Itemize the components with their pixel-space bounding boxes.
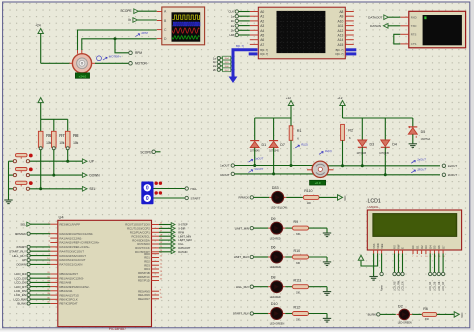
svg-text:+24: +24: [35, 23, 41, 27]
svg-text:A9: A9: [339, 15, 343, 19]
svg-text:LED-RED: LED-RED: [270, 237, 281, 240]
svg-text:+12: +12: [286, 96, 291, 100]
svg-text:+12: +12: [337, 96, 342, 100]
svg-text:RA4/T0CKI/C1OUT: RA4/T0CKI/C1OUT: [60, 249, 85, 253]
svg-text:+0.0: +0.0: [315, 181, 321, 185]
svg-text:2b: 2b: [231, 29, 235, 33]
svg-text:D[0..7]: D[0..7]: [335, 52, 343, 56]
svg-text:RE2/AN7: RE2/AN7: [138, 297, 150, 301]
svg-text:SEL: SEL: [90, 187, 96, 191]
svg-text:DOWN: DOWN: [90, 173, 101, 177]
svg-text:330: 330: [296, 292, 301, 295]
svg-text:2aOUT: 2aOUT: [448, 164, 458, 168]
svg-text:A0: A0: [260, 10, 264, 14]
svg-text:D3: D3: [424, 245, 428, 249]
svg-text:VSS: VSS: [372, 243, 376, 248]
svg-text:D6: D6: [271, 246, 276, 250]
svg-text:SCOPE: SCOPE: [120, 9, 131, 13]
svg-text:LED-GREEN: LED-GREEN: [270, 323, 285, 326]
svg-text:RTS: RTS: [411, 33, 417, 37]
svg-text:1aOUT: 1aOUT: [220, 164, 230, 168]
svg-text:MOTOR-: MOTOR-: [135, 62, 148, 66]
svg-text:RPMCK: RPMCK: [239, 196, 250, 200]
svg-text:D33: D33: [272, 186, 279, 190]
svg-text:R1(2): R1(2): [301, 142, 308, 146]
svg-text:B[0..7]: B[0..7]: [236, 44, 244, 48]
svg-text:VCC: VCC: [344, 195, 347, 200]
svg-text:RA2/AN2/VREF-/CVREF/C2IN+: RA2/AN2/VREF-/CVREF/C2IN+: [60, 241, 100, 245]
svg-text:D3: D3: [370, 142, 375, 146]
svg-text:R2: R2: [348, 129, 353, 133]
svg-text:100: 100: [307, 202, 312, 205]
svg-text:D0: D0: [411, 245, 415, 249]
svg-text:LCD_D5: LCD_D5: [434, 281, 437, 291]
svg-text:A7: A7: [260, 43, 264, 47]
svg-text:VCC: VCC: [461, 312, 464, 317]
svg-text:D7: D7: [280, 143, 285, 147]
svg-text:START_RLY: START_RLY: [233, 312, 249, 316]
svg-text:330: 330: [296, 318, 301, 321]
svg-text:RPM: RPM: [135, 51, 142, 55]
svg-text:RA7/OSC1/CLKIN: RA7/OSC1/CLKIN: [60, 263, 83, 267]
svg-text:D[0..7]: D[0..7]: [260, 52, 268, 56]
svg-text:D7: D7: [441, 245, 445, 249]
svg-text:RE3/MCLR/VPP: RE3/MCLR/VPP: [60, 222, 81, 226]
svg-text:R1: R1: [297, 129, 302, 133]
svg-text:A10: A10: [338, 19, 344, 23]
svg-text:A12: A12: [338, 29, 344, 33]
svg-text:2aOUT: 2aOUT: [416, 158, 426, 162]
svg-text:R8: R8: [73, 133, 79, 138]
svg-text:10TQ045: 10TQ045: [269, 151, 279, 153]
svg-text:LED-GREEN: LED-GREEN: [398, 322, 412, 325]
svg-text:None: None: [381, 285, 384, 291]
svg-text:HILL: HILL: [191, 187, 198, 191]
svg-text:A1: A1: [260, 15, 264, 19]
svg-text:UP: UP: [22, 258, 26, 262]
svg-text:START: START: [191, 196, 201, 200]
svg-text:1bOUT: 1bOUT: [255, 167, 264, 171]
svg-text:DATAOUT: DATAOUT: [178, 246, 190, 250]
svg-text:BLINK: BLINK: [17, 302, 26, 306]
svg-text:A5: A5: [260, 34, 264, 38]
svg-text:R12: R12: [294, 305, 301, 309]
svg-text:LED-RED: LED-RED: [270, 266, 281, 269]
svg-text:DATAIN: DATAIN: [370, 24, 381, 28]
svg-text:D1: D1: [416, 245, 420, 249]
svg-text:VDD: VDD: [376, 243, 380, 249]
svg-text:DOWN: DOWN: [17, 263, 27, 267]
svg-text:D2: D2: [420, 245, 424, 249]
svg-text:D1: D1: [262, 143, 267, 147]
svg-text:SEL: SEL: [20, 222, 26, 226]
svg-text:HILL_RLY: HILL_RLY: [12, 254, 26, 258]
svg-text:2bOUT: 2bOUT: [448, 173, 458, 177]
svg-text:MOTOR+: MOTOR+: [109, 55, 121, 59]
svg-text:R9: R9: [294, 220, 299, 224]
svg-text:R111: R111: [294, 279, 302, 283]
svg-text:LCD_D4: LCD_D4: [429, 281, 432, 291]
svg-text:UP: UP: [90, 160, 94, 164]
svg-text:D5: D5: [433, 245, 437, 249]
svg-text:RPM: RPM: [142, 31, 149, 35]
svg-text:B[0..7]: B[0..7]: [260, 48, 268, 52]
svg-text:RXD: RXD: [411, 15, 417, 19]
svg-text:RA1/AN1/C12IN1-: RA1/AN1/C12IN1-: [60, 236, 83, 240]
svg-text:1b: 1b: [231, 19, 235, 23]
svg-text:A15: A15: [338, 43, 344, 47]
svg-text:RD7/P1D: RD7/P1D: [138, 279, 150, 283]
svg-text:A6: A6: [260, 38, 264, 42]
svg-text:D4: D4: [428, 245, 432, 249]
svg-text:LIMIT_MAX: LIMIT_MAX: [234, 255, 249, 259]
svg-text:RA5/AN4/SS/C2OUT: RA5/AN4/SS/C2OUT: [60, 254, 87, 258]
svg-text:CLK: CLK: [228, 10, 234, 14]
svg-text:A13: A13: [338, 34, 344, 38]
svg-text:CTS: CTS: [411, 42, 417, 46]
svg-text:D5: D5: [421, 130, 426, 134]
svg-text:A3: A3: [260, 24, 264, 28]
svg-text:PIC18F887: PIC18F887: [109, 327, 126, 331]
svg-text:RB7/ICSPDAT: RB7/ICSPDAT: [60, 302, 78, 306]
svg-text:KILL: KILL: [178, 242, 184, 246]
svg-text:X-DIR: X-DIR: [178, 227, 185, 231]
svg-text:A8: A8: [339, 10, 343, 14]
svg-text:START_RLY: START_RLY: [9, 249, 26, 253]
svg-text:A2: A2: [260, 19, 264, 23]
svg-text:A4: A4: [260, 29, 264, 33]
svg-text:VEE: VEE: [380, 243, 384, 248]
svg-text:330: 330: [296, 262, 301, 265]
svg-text:R10: R10: [294, 249, 301, 253]
svg-text:2b: 2b: [213, 68, 217, 72]
svg-text:LIMIT_MIN: LIMIT_MIN: [178, 234, 191, 238]
svg-text:R110: R110: [304, 189, 312, 193]
svg-text:B[0..7]: B[0..7]: [336, 48, 344, 52]
svg-text:BLINK: BLINK: [368, 313, 376, 317]
svg-text:R2(2): R2(2): [325, 149, 332, 153]
svg-text:LCD_RS: LCD_RS: [394, 281, 397, 291]
svg-text:RW: RW: [397, 244, 401, 249]
svg-text:DATAIN: DATAIN: [178, 250, 187, 254]
svg-text:RA6/OSC2/CLKOUT: RA6/OSC2/CLKOUT: [60, 258, 86, 262]
svg-text:LCD_D7: LCD_D7: [442, 281, 445, 291]
svg-text:TXD: TXD: [411, 24, 417, 28]
svg-text:D8: D8: [271, 275, 276, 279]
svg-text:10TQ045: 10TQ045: [379, 153, 389, 155]
svg-text:LCD_D6: LCD_D6: [438, 281, 441, 291]
svg-text:D2: D2: [398, 304, 403, 308]
svg-text:D4: D4: [392, 142, 397, 146]
svg-text:LCD1: LCD1: [368, 199, 381, 205]
svg-text:HM: HM: [230, 33, 235, 37]
svg-text:10k: 10k: [46, 141, 52, 145]
svg-text:2a: 2a: [231, 24, 235, 28]
svg-text:330: 330: [296, 233, 301, 236]
svg-text:2bOUT: 2bOUT: [416, 167, 426, 171]
svg-text:Ib: Ib: [128, 18, 131, 22]
svg-text:0: 0: [146, 196, 149, 202]
svg-text:10k: 10k: [59, 141, 65, 145]
svg-text:LCD_RW: LCD_RW: [398, 280, 401, 291]
svg-text:LED-YELLOW: LED-YELLOW: [271, 207, 288, 210]
svg-text:E: E: [401, 247, 405, 249]
svg-text:RA0/AN0/ULPWU/C12IN0-: RA0/AN0/ULPWU/C12IN0-: [60, 232, 94, 236]
svg-text:D9: D9: [271, 217, 276, 221]
svg-text:10TQ045: 10TQ045: [357, 153, 367, 155]
svg-text:RPM: RPM: [178, 230, 184, 234]
svg-text:1N4751A: 1N4751A: [421, 138, 431, 141]
svg-text:LIMIT_MIN: LIMIT_MIN: [235, 226, 249, 230]
svg-text:D6: D6: [437, 245, 441, 249]
svg-text:SCOPE: SCOPE: [140, 150, 151, 154]
svg-text:+24.0: +24.0: [79, 74, 87, 78]
svg-text:LIMIT_MAX: LIMIT_MAX: [178, 238, 192, 242]
svg-text:LM016L: LM016L: [368, 205, 379, 209]
svg-text:R6: R6: [423, 307, 428, 311]
svg-text:HILL_RLY: HILL_RLY: [236, 285, 249, 289]
svg-text:A14: A14: [338, 38, 344, 42]
svg-text:1aOUT: 1aOUT: [255, 157, 264, 161]
svg-text:330: 330: [425, 318, 430, 321]
svg-text:RPMCK: RPMCK: [15, 232, 26, 236]
svg-text:0: 0: [146, 186, 149, 192]
svg-text:R7: R7: [59, 133, 65, 138]
svg-text:10k: 10k: [73, 141, 79, 145]
svg-text:DATAOUT: DATAOUT: [368, 16, 382, 20]
svg-text:X-STEP: X-STEP: [178, 223, 188, 227]
svg-text:LCD_EN: LCD_EN: [402, 281, 405, 291]
svg-text:U4: U4: [59, 215, 65, 220]
svg-text:D10: D10: [271, 302, 278, 306]
svg-text:RS: RS: [393, 245, 397, 249]
svg-text:A11: A11: [338, 24, 344, 28]
svg-text:LED-RED: LED-RED: [270, 296, 281, 299]
svg-text:1a: 1a: [231, 14, 235, 18]
svg-text:1bOUT: 1bOUT: [220, 173, 230, 177]
